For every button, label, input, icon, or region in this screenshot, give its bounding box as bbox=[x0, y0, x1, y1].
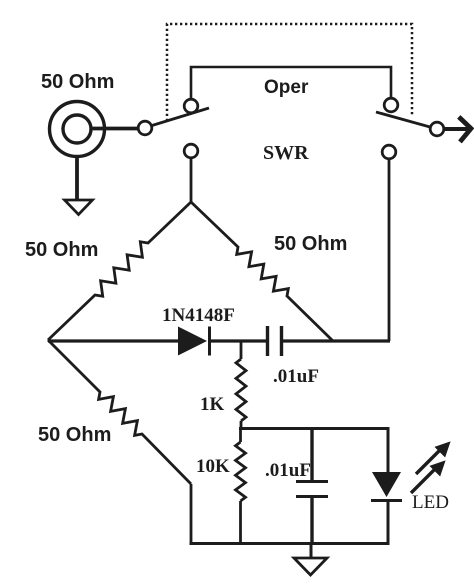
switch S1b Oper throw contact bbox=[384, 98, 398, 112]
switch S1b SWR throw contact bbox=[382, 145, 396, 159]
resistor R5 10K bbox=[236, 442, 246, 501]
svg-text:SWR: SWR bbox=[263, 142, 309, 164]
svg-text:.01uF: .01uF bbox=[273, 366, 319, 387]
switch S1a pole contact bbox=[138, 121, 152, 135]
LED emission arrow 2 bbox=[411, 462, 444, 493]
svg-text:50 Ohm: 50 Ohm bbox=[274, 233, 347, 255]
LED emission arrow 1 bbox=[416, 443, 449, 474]
resistor R2 50 Ohm (bridge upper-right) bbox=[191, 202, 333, 341]
LED D2 cathode bar bbox=[371, 499, 402, 502]
wire: bottom ground rail bbox=[190, 542, 389, 545]
connector J1 (coax input) outer ring bbox=[50, 102, 105, 157]
resistor R4 1K bbox=[236, 359, 246, 421]
connector J1 center pin bbox=[63, 115, 91, 143]
capacitor C1 .01uF right plate bbox=[280, 326, 283, 356]
wire: diode cathode junction to R4 bbox=[240, 341, 243, 359]
svg-text:.01uF: .01uF bbox=[265, 460, 311, 481]
wire: C2 to bottom rail bbox=[310, 497, 313, 545]
LED D2 bbox=[372, 472, 401, 497]
wire: R5 to bottom rail bbox=[239, 501, 242, 545]
switch S1b arm bbox=[376, 112, 430, 127]
capacitor C2 .01uF top plate bbox=[296, 480, 328, 483]
svg-text:1K: 1K bbox=[200, 394, 225, 415]
wire: LED cathode to bottom rail bbox=[387, 501, 390, 545]
ground (detector) bbox=[294, 558, 327, 575]
wire: filter top rail bbox=[239, 427, 390, 430]
switch mechanical link (dotted) bbox=[167, 24, 412, 121]
wire: bridge left node to diode anode bbox=[48, 339, 180, 342]
svg-text:50 Ohm: 50 Ohm bbox=[25, 239, 98, 261]
diode D1 cathode bar bbox=[208, 327, 211, 356]
svg-text:50 Ohm: 50 Ohm bbox=[41, 71, 114, 93]
svg-text:50 Ohm: 50 Ohm bbox=[38, 424, 111, 446]
resistor R3 50 Ohm (bridge lower-left) bbox=[48, 340, 191, 484]
wire: rail to ground bbox=[310, 543, 313, 558]
switch S1a Oper throw contact bbox=[184, 99, 198, 113]
svg-text:LED: LED bbox=[412, 492, 449, 513]
wire: S1a SWR contact to bridge apex bbox=[190, 158, 193, 202]
wire: R4 to filter rail bbox=[240, 421, 243, 430]
switch S1b pole contact bbox=[430, 122, 444, 136]
wire: S1b SWR contact down to detector rail bbox=[388, 159, 391, 341]
wire: Oper position link bbox=[191, 67, 391, 100]
svg-text:10K: 10K bbox=[196, 456, 230, 477]
svg-text:Oper: Oper bbox=[264, 77, 309, 98]
capacitor C1 .01uF left plate bbox=[266, 326, 269, 356]
wire: rail right side down to LED bbox=[387, 428, 390, 473]
wire: R3 to bottom rail bbox=[190, 484, 193, 545]
wire: rail to R5 bbox=[239, 428, 242, 442]
wire: J1 center to switch pole bbox=[91, 127, 138, 131]
svg-text:1N4148F: 1N4148F bbox=[162, 305, 235, 326]
capacitor C2 .01uF bottom plate bbox=[296, 495, 328, 498]
resistor R1 50 Ohm (bridge upper-left) bbox=[48, 202, 191, 340]
ground (input) bbox=[65, 200, 93, 215]
wire: diode cathode to C1 bbox=[209, 339, 266, 342]
wire: output to antenna bbox=[444, 127, 469, 131]
wire: J1 shell to ground bbox=[75, 156, 79, 199]
switch S1a SWR throw contact bbox=[184, 144, 198, 158]
wire: rail to C2 bbox=[310, 428, 313, 481]
diode D1 1N4148F bbox=[178, 327, 207, 356]
switch S1a arm bbox=[152, 108, 209, 126]
wire: C1 to right rail bbox=[283, 339, 390, 342]
arrow: RF output bbox=[461, 119, 472, 141]
